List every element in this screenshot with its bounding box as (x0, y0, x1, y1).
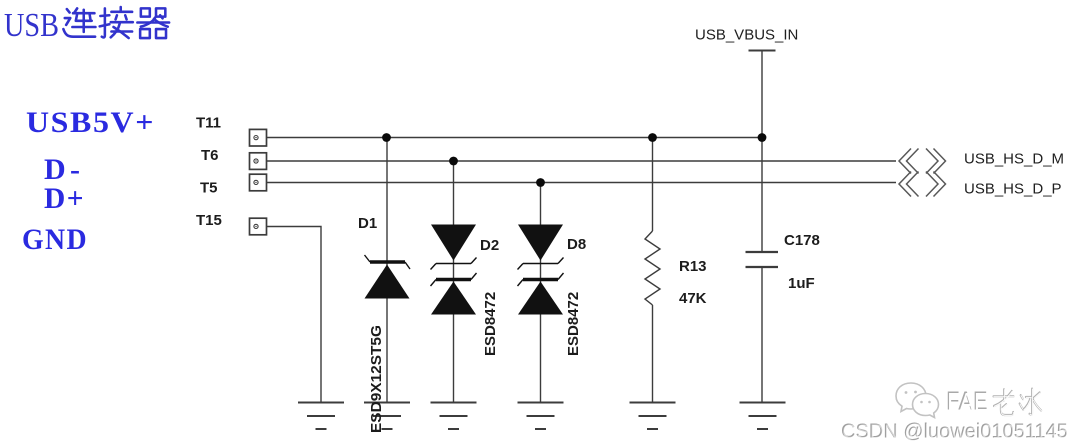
svg-text:47K: 47K (679, 290, 707, 307)
svg-text:USB_HS_D_M: USB_HS_D_M (964, 151, 1064, 168)
svg-text:GND: GND (22, 223, 88, 256)
svg-text:USB: USB (4, 7, 59, 44)
svg-text:ESD8472: ESD8472 (482, 292, 499, 356)
svg-text:T11: T11 (196, 115, 221, 132)
svg-text:ESD9X12ST5G: ESD9X12ST5G (368, 325, 385, 433)
svg-text:USB5V+: USB5V+ (26, 106, 155, 139)
svg-text:T5: T5 (200, 180, 218, 197)
svg-text:CSDN @luowei01051145: CSDN @luowei01051145 (842, 422, 1069, 444)
svg-text:D2: D2 (480, 237, 499, 254)
svg-text:D1: D1 (358, 215, 377, 232)
svg-text:USB_HS_D_P: USB_HS_D_P (964, 181, 1062, 198)
svg-text:ESD8472: ESD8472 (565, 292, 582, 356)
svg-text:R13: R13 (679, 258, 707, 275)
svg-text:USB_VBUS_IN: USB_VBUS_IN (695, 27, 798, 44)
svg-text:D+: D+ (44, 182, 85, 215)
svg-text:1uF: 1uF (788, 275, 815, 292)
svg-text:D8: D8 (567, 236, 586, 253)
svg-text:FAE: FAE (947, 387, 989, 417)
svg-text:T15: T15 (196, 212, 222, 229)
svg-text:C178: C178 (784, 232, 820, 249)
svg-text:T6: T6 (201, 147, 219, 164)
